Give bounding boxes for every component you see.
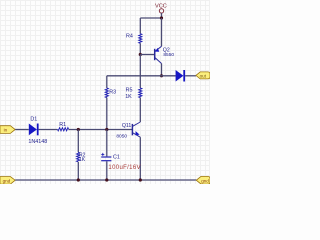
wire R5 branch (R4 line continues) crossing out rail xyxy=(139,55,141,89)
port gnd left xyxy=(0,177,15,185)
wire R3 branch down from out rail xyxy=(106,76,108,88)
svg-text:R3: R3 xyxy=(109,89,116,95)
diode D2 out xyxy=(176,70,186,82)
resistor R2 xyxy=(77,152,80,162)
wire diode to out port xyxy=(185,75,196,77)
capacitor C1 plus sign xyxy=(101,153,104,156)
svg-text:out: out xyxy=(200,74,207,79)
svg-text:8550: 8550 xyxy=(163,52,174,58)
capacitor C1 plates xyxy=(101,156,111,157)
svg-text:D1: D1 xyxy=(30,116,37,122)
svg-text:in: in xyxy=(4,128,8,133)
port out xyxy=(196,72,210,79)
wire R4 branch top xyxy=(139,18,141,34)
junction out rail xyxy=(160,74,163,77)
wire top rail xyxy=(140,17,161,19)
svg-text:gnd: gnd xyxy=(201,178,209,183)
wire D1 to R1 xyxy=(39,129,58,131)
svg-text:gnd: gnd xyxy=(3,178,11,183)
junction C1/gnd xyxy=(105,178,108,181)
junction node A xyxy=(77,128,80,131)
svg-text:Q11: Q11 xyxy=(122,123,132,129)
wire R3 to base rail xyxy=(106,98,108,130)
resistor R4 xyxy=(139,34,142,44)
wire C1 to gnd rail xyxy=(106,161,108,180)
wire R4 to junction xyxy=(139,43,141,54)
junction Q11 emitter/gnd xyxy=(139,178,142,181)
wire C1 branch xyxy=(106,130,108,157)
svg-text:C1: C1 xyxy=(113,155,120,161)
wire Q11 emitter down xyxy=(139,137,141,180)
junction R2/gnd xyxy=(77,178,80,181)
resistor R1 xyxy=(58,128,69,131)
resistor R3 xyxy=(105,88,108,98)
wire Q2 base xyxy=(140,54,154,56)
wire VCC stub xyxy=(161,13,163,18)
wire Q2 collector to out rail xyxy=(161,64,163,76)
diode D1 1N4148 xyxy=(29,124,39,136)
svg-text:R4: R4 xyxy=(126,34,133,40)
svg-text:8050: 8050 xyxy=(116,133,127,139)
wire out rail xyxy=(107,75,176,77)
transistor Q2 (PNP 8550) xyxy=(155,46,162,63)
svg-text:R5: R5 xyxy=(126,88,133,94)
junction R3/C1 node xyxy=(105,128,108,131)
port gnd right xyxy=(196,176,210,184)
resistor R5 xyxy=(139,88,142,98)
wire R1 to node A xyxy=(69,129,133,131)
transistor Q11 (NPN 8050) xyxy=(132,122,140,137)
wire R5 to Q11 collector xyxy=(139,98,141,122)
power port VCC circle xyxy=(159,9,163,13)
wire in port to D1 xyxy=(15,129,29,131)
wire gnd rail xyxy=(15,179,196,181)
wire R2 branch xyxy=(77,130,79,153)
wire right vertical to Q2 emitter xyxy=(161,18,163,46)
svg-text:1K: 1K xyxy=(79,157,86,163)
junction R4/Q2 base xyxy=(139,53,142,56)
svg-text:1N4148: 1N4148 xyxy=(28,139,47,145)
wire R2 to gnd rail xyxy=(77,162,79,180)
junction at VCC node xyxy=(160,16,163,19)
svg-text:100uF/16V: 100uF/16V xyxy=(108,165,141,171)
svg-text:R1: R1 xyxy=(59,122,66,128)
port in xyxy=(0,126,15,134)
svg-text:1K: 1K xyxy=(125,94,132,100)
